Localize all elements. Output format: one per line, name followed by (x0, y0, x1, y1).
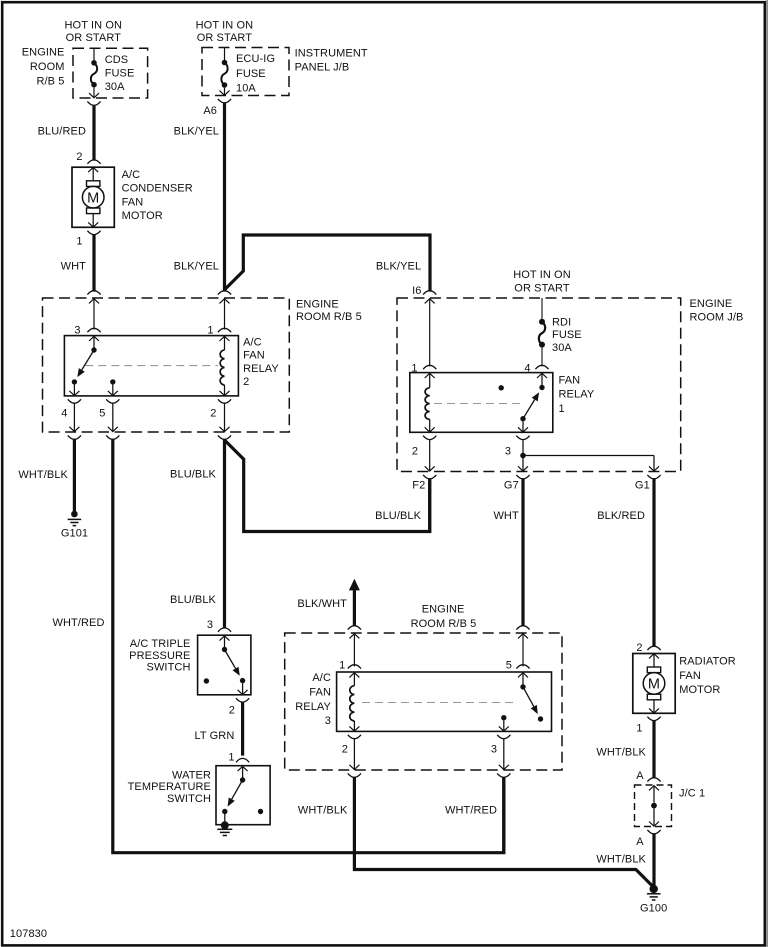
junction block ENGINE ROOM R/B 5 (A/C fan relay) (43, 298, 290, 432)
svg-text:FAN: FAN (243, 350, 265, 362)
svg-text:4: 4 (61, 407, 67, 419)
wire BLK/YEL branch to I6 (225, 235, 431, 292)
svg-text:3: 3 (491, 743, 497, 755)
svg-text:2: 2 (76, 151, 82, 163)
svg-text:OR START: OR START (514, 283, 570, 295)
junction connector J/C 1 (635, 785, 672, 827)
svg-text:WHT/RED: WHT/RED (52, 617, 104, 629)
svg-text:RDI: RDI (552, 317, 571, 329)
connectors at bottom edge of R/B 5 (68, 435, 81, 439)
svg-text:A/C: A/C (312, 672, 331, 684)
svg-text:RADIATOR: RADIATOR (679, 655, 736, 667)
wire BLU/BLK from pin 2 down (223, 440, 226, 629)
wire WHT/BLK from J/C 1 to G100 (652, 834, 655, 886)
wire WHT/RED from relay pin 3 (502, 777, 505, 853)
switch arm of lower A/C fan relay (520, 684, 525, 689)
svg-text:J/C 1: J/C 1 (679, 788, 705, 800)
pin 2 exit of A/C fan relay (218, 399, 231, 403)
connector below CDS fuse (87, 101, 100, 105)
svg-text:ROOM R/B 5: ROOM R/B 5 (296, 311, 362, 323)
fuse ECU-IG FUSE 10A (224, 47, 226, 63)
connector WHT into R/B 5 (87, 291, 100, 295)
connector F2 (423, 475, 436, 479)
svg-text:CONDENSER: CONDENSER (122, 183, 193, 195)
svg-text:4: 4 (524, 363, 530, 375)
fuse CDS FUSE 30A (93, 48, 95, 63)
switch S1 A/C TRIPLE PRESSURE SWITCH (198, 635, 251, 695)
svg-text:SWITCH: SWITCH (167, 793, 211, 805)
svg-text:10A: 10A (236, 82, 256, 94)
svg-text:FAN: FAN (559, 375, 581, 387)
svg-text:MOTOR: MOTOR (679, 684, 720, 696)
svg-text:M: M (648, 677, 660, 693)
svg-text:LT GRN: LT GRN (194, 730, 234, 742)
node pin 2 of A/C triple pressure switch (236, 698, 249, 702)
svg-text:WHT/BLK: WHT/BLK (596, 746, 646, 758)
svg-text:ECU-IG: ECU-IG (236, 53, 275, 65)
svg-text:WHT/RED: WHT/RED (445, 805, 497, 817)
wire LT GRN (241, 702, 244, 755)
relay K1 A/C FAN RELAY (64, 336, 238, 396)
relay K3 A/C FAN RELAY (lower) (337, 672, 552, 731)
svg-text:PANEL J/B: PANEL J/B (295, 62, 350, 74)
svg-text:5: 5 (99, 407, 105, 419)
svg-text:1: 1 (339, 659, 345, 671)
wire BLU/BLK from F2 (428, 479, 431, 533)
svg-text:30A: 30A (105, 81, 125, 93)
svg-text:R/B 5: R/B 5 (36, 76, 64, 88)
relay link dashed line (85, 365, 218, 367)
svg-text:ROOM J/B: ROOM J/B (690, 312, 744, 324)
svg-text:2: 2 (412, 445, 418, 457)
svg-text:WHT/BLK: WHT/BLK (298, 805, 348, 817)
svg-text:HOT IN ON: HOT IN ON (65, 20, 123, 32)
motor M1 A/C CONDENSER FAN MOTOR (72, 167, 114, 227)
svg-text:RELAY: RELAY (559, 389, 595, 401)
svg-text:INSTRUMENT: INSTRUMENT (295, 48, 368, 60)
svg-text:OR START: OR START (197, 32, 253, 44)
svg-text:5: 5 (506, 659, 512, 671)
junction node to G1 (520, 453, 526, 459)
node pin 1 of A/C condenser fan motor (87, 231, 100, 235)
svg-text:BLU/BLK: BLU/BLK (375, 510, 422, 522)
svg-text:FUSE: FUSE (105, 67, 135, 79)
svg-text:2: 2 (342, 743, 348, 755)
svg-text:2: 2 (210, 407, 216, 419)
wire WHT/BLK from relay pin 2 to G100 (354, 777, 652, 885)
connector G1 (647, 475, 660, 479)
pin 3 exit of lower A/C fan relay (497, 735, 510, 739)
svg-text:SWITCH: SWITCH (147, 662, 191, 674)
svg-text:ROOM R/B 5: ROOM R/B 5 (411, 618, 477, 630)
svg-text:BLU/RED: BLU/RED (38, 125, 86, 137)
svg-text:A/C: A/C (122, 169, 141, 181)
ground G101 (71, 511, 78, 518)
svg-text:1: 1 (76, 235, 82, 247)
svg-text:A/C: A/C (243, 337, 262, 349)
svg-text:BLK/YEL: BLK/YEL (174, 261, 219, 273)
svg-text:BLK/RED: BLK/RED (597, 510, 645, 522)
svg-text:ENGINE: ENGINE (296, 299, 339, 311)
svg-text:WHT/BLK: WHT/BLK (18, 469, 68, 481)
svg-text:WHT/BLK: WHT/BLK (596, 853, 646, 865)
svg-text:WHT: WHT (493, 510, 519, 522)
wire WHT from G7 (521, 479, 524, 626)
svg-text:ENGINE: ENGINE (422, 604, 465, 616)
svg-text:G100: G100 (640, 903, 667, 915)
svg-text:3: 3 (505, 445, 511, 457)
coil of A/C fan relay (220, 350, 224, 385)
connector BLK/WHT into lower R/B 5 (348, 626, 361, 630)
svg-text:1: 1 (207, 325, 213, 337)
svg-text:FUSE: FUSE (236, 68, 266, 80)
wire WHT/RED from pin 5 down and right (113, 440, 504, 853)
wire WHT/BLK to G101 (73, 440, 76, 512)
svg-text:RELAY: RELAY (243, 363, 279, 375)
relay link dashed line (362, 702, 518, 704)
svg-text:1: 1 (411, 363, 417, 375)
svg-text:HOT IN ON: HOT IN ON (513, 269, 571, 281)
switch arm of A/C fan relay (91, 347, 96, 352)
svg-text:G7: G7 (504, 479, 519, 491)
relay K2 FAN RELAY (410, 373, 553, 433)
pin 5 exit of A/C fan relay (106, 399, 119, 403)
svg-text:ROOM: ROOM (30, 61, 65, 73)
connector A6 (218, 99, 231, 103)
junction block INSTRUMENT PANEL J/B (ECU-IG fuse box) (202, 48, 289, 96)
pin 4 exit of A/C fan relay (68, 399, 81, 403)
junction block ENGINE ROOM R/B 5 (CDS fuse box) (73, 48, 148, 98)
svg-text:FAN: FAN (679, 670, 701, 682)
svg-text:BLK/WHT: BLK/WHT (297, 598, 347, 610)
svg-text:BLK/YEL: BLK/YEL (174, 125, 219, 137)
svg-text:A: A (636, 770, 644, 782)
svg-text:RELAY: RELAY (295, 701, 331, 713)
wire WHT (92, 235, 95, 292)
svg-text:3: 3 (74, 325, 80, 337)
svg-text:G1: G1 (635, 479, 650, 491)
svg-text:FAN: FAN (309, 687, 331, 699)
wire BLK/RED from G1 (652, 479, 655, 647)
svg-text:2: 2 (636, 642, 642, 654)
svg-text:MOTOR: MOTOR (122, 210, 163, 222)
svg-text:I6: I6 (412, 285, 421, 297)
svg-text:ENGINE: ENGINE (22, 46, 65, 58)
svg-text:HOT IN ON: HOT IN ON (196, 20, 254, 32)
svg-text:1: 1 (636, 723, 642, 735)
svg-text:30A: 30A (552, 342, 572, 354)
svg-text:M: M (87, 190, 99, 206)
connector A below J/C 1 (647, 830, 660, 834)
svg-text:A6: A6 (203, 105, 217, 117)
svg-text:G101: G101 (61, 527, 88, 539)
switch arm of fan relay (539, 385, 544, 390)
wire WHT/BLK below radiator fan motor (652, 721, 655, 779)
svg-text:1: 1 (228, 752, 234, 764)
svg-text:107830: 107830 (10, 928, 47, 940)
ground G100 (650, 885, 658, 893)
motor M2 RADIATOR FAN MOTOR (633, 654, 675, 714)
svg-text:OR START: OR START (66, 32, 122, 44)
pin 2 exit of fan relay (423, 436, 436, 440)
connectors at bottom edge of lower R/B 5 (348, 773, 361, 777)
svg-text:ENGINE: ENGINE (690, 298, 733, 310)
svg-text:A/C TRIPLE: A/C TRIPLE (130, 638, 191, 650)
junction block ENGINE ROOM R/B 5 (lower) (285, 633, 562, 770)
svg-text:TEMPERATURE: TEMPERATURE (128, 781, 211, 793)
svg-text:BLU/BLK: BLU/BLK (170, 468, 217, 480)
connector WHT into lower R/B 5 (516, 626, 529, 630)
svg-text:BLU/BLK: BLU/BLK (170, 594, 217, 606)
fuse RDI FUSE 30A (541, 298, 543, 322)
svg-text:FUSE: FUSE (552, 329, 582, 341)
svg-text:CDS: CDS (105, 54, 129, 66)
wire BLU/RED (92, 106, 95, 161)
connector BLK/YEL into R/B 5 (218, 291, 231, 295)
svg-text:BLK/YEL: BLK/YEL (376, 261, 421, 273)
svg-text:2: 2 (229, 705, 235, 717)
svg-text:FAN: FAN (122, 196, 144, 208)
junction block ENGINE ROOM J/B (397, 298, 681, 472)
node pin 1 of radiator fan motor (647, 717, 660, 721)
svg-text:2: 2 (243, 376, 249, 388)
connector G7 (516, 475, 529, 479)
wire BLU/BLK branch to F2 (225, 441, 429, 532)
wire BLK/YEL from A6 (223, 103, 226, 291)
svg-text:A: A (636, 836, 644, 848)
svg-text:F2: F2 (412, 479, 425, 491)
relay link dashed line (434, 403, 522, 405)
pin 3 exit of fan relay (516, 436, 529, 440)
contact pin 5 of A/C fan relay (110, 379, 115, 384)
svg-text:PRESSURE: PRESSURE (129, 650, 190, 662)
ground at water temperature switch (221, 821, 229, 829)
coil of fan relay (429, 373, 431, 388)
svg-text:WATER: WATER (172, 769, 211, 781)
coil of lower A/C fan relay (350, 686, 355, 721)
wire BLK/WHT with arrow to other circuit (349, 579, 360, 591)
svg-text:3: 3 (207, 619, 213, 631)
svg-text:3: 3 (325, 715, 331, 727)
pin 2 exit of lower A/C fan relay (348, 735, 361, 739)
svg-text:1: 1 (559, 403, 565, 415)
svg-text:WHT: WHT (61, 261, 87, 273)
switch S2 WATER TEMPERATURE SWITCH (216, 766, 270, 825)
